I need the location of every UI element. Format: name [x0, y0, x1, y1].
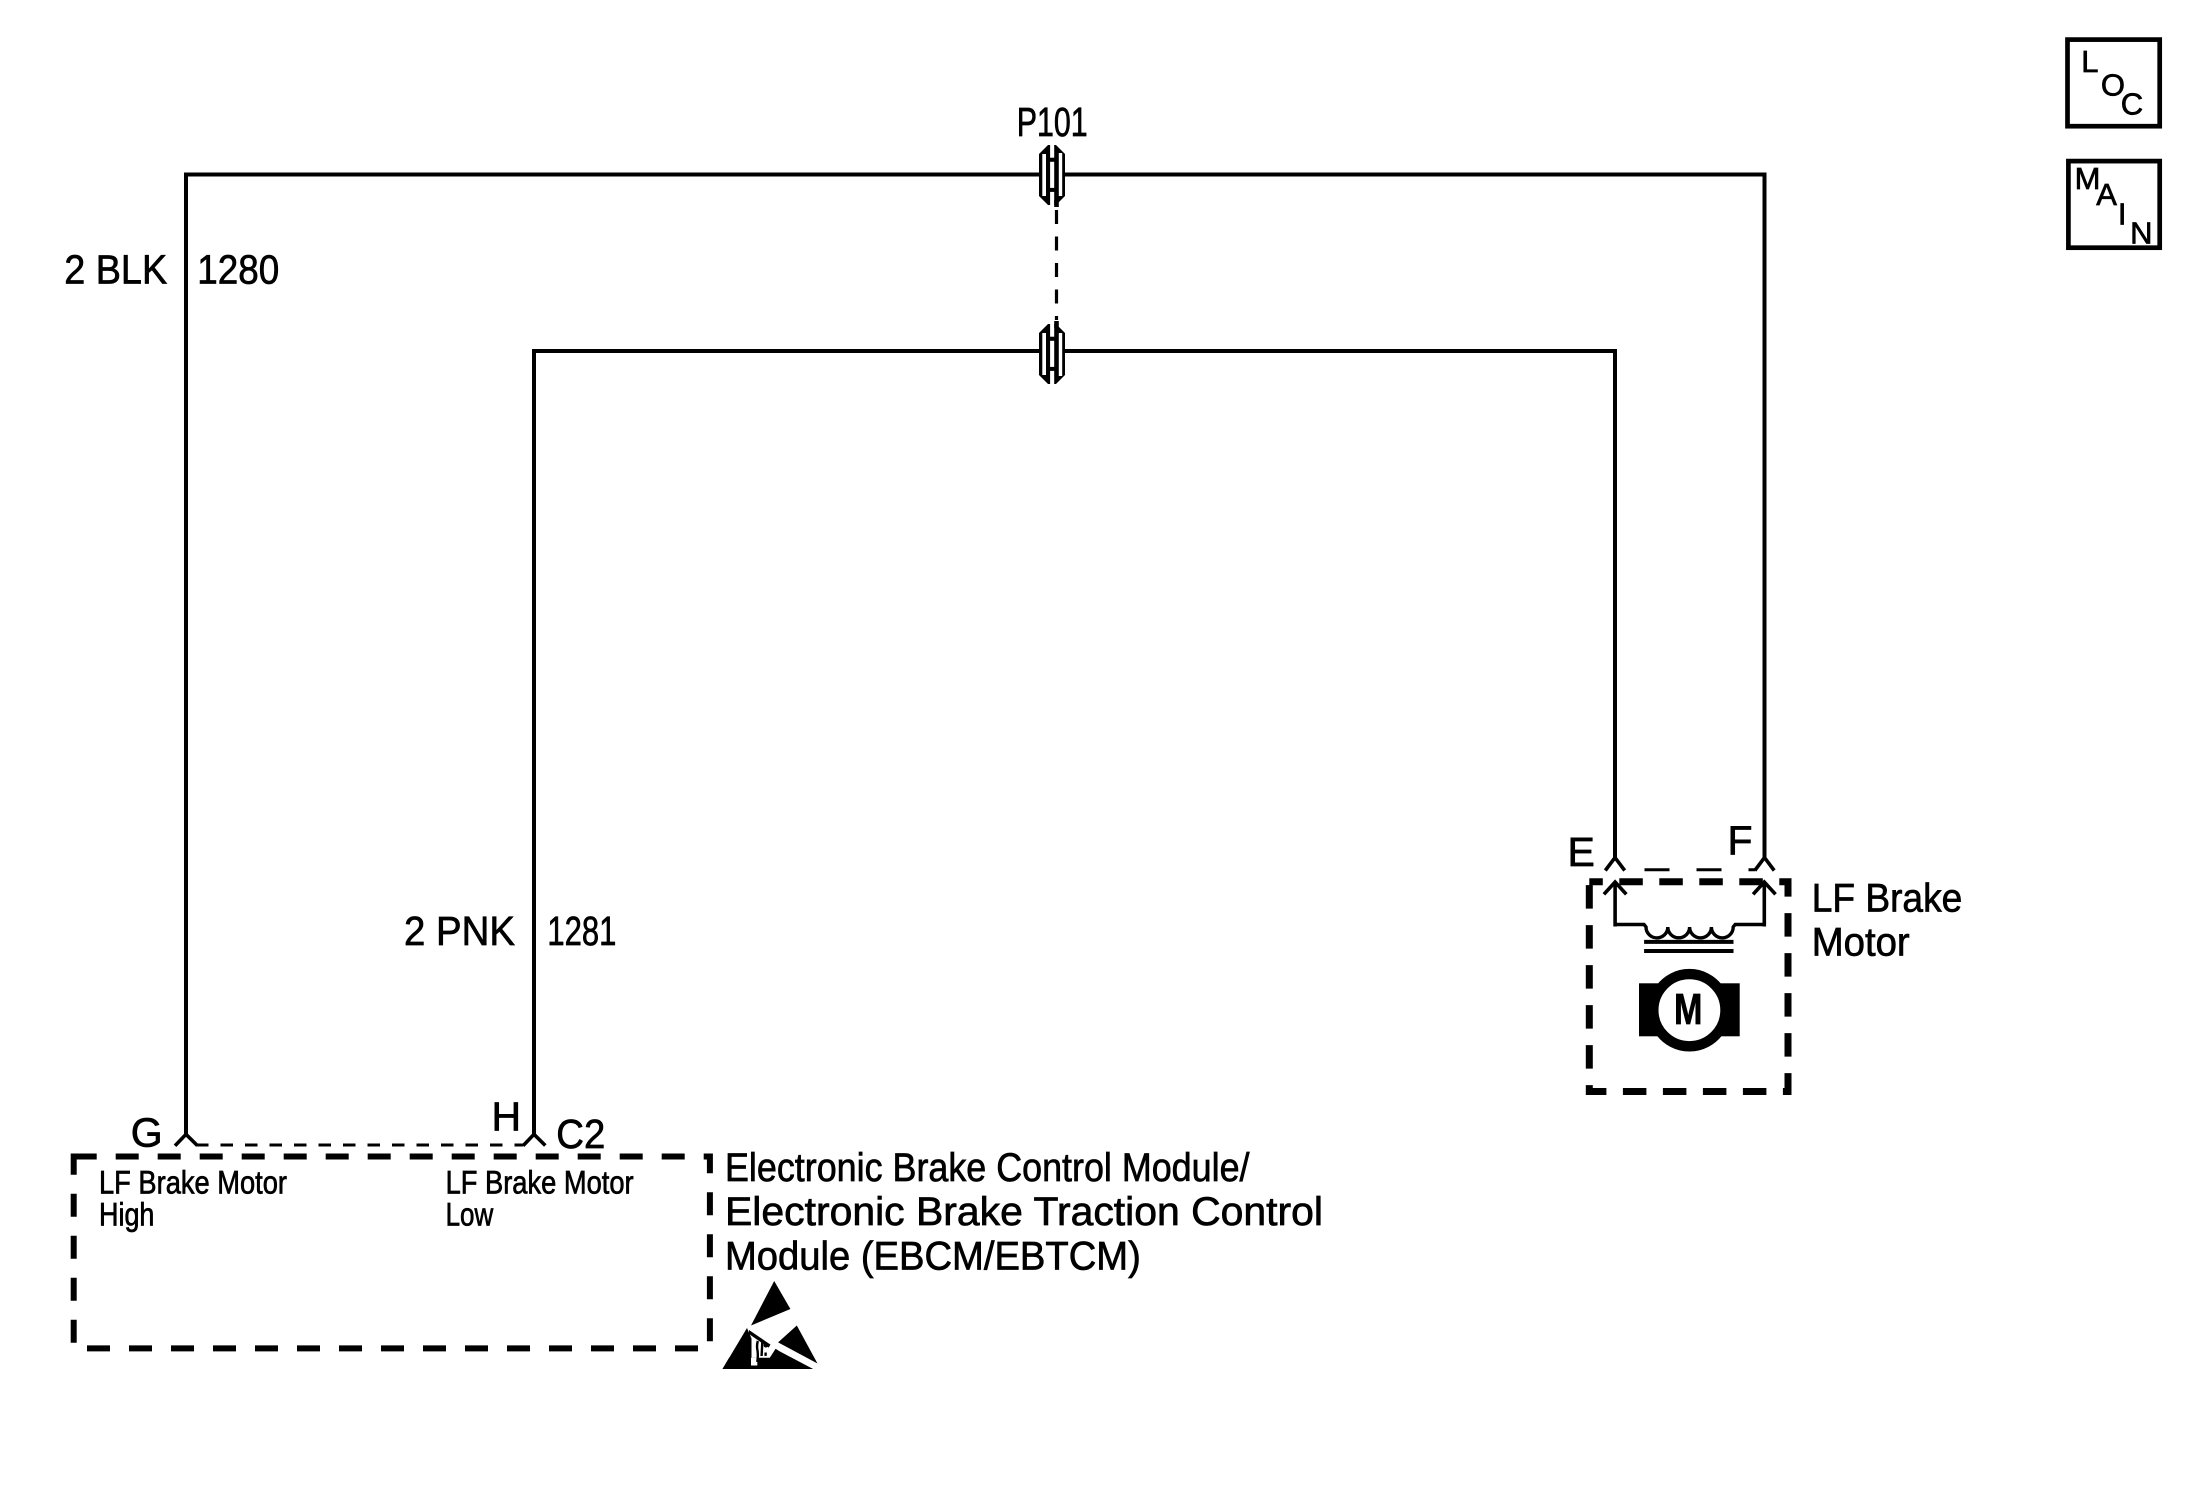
svg-text:F: F [1728, 817, 1753, 863]
connector P101 upper half symbol [1039, 145, 1065, 207]
svg-text:Electronic Brake Traction Cont: Electronic Brake Traction Control [725, 1190, 1323, 1234]
svg-text:C: C [2121, 87, 2143, 122]
svg-text:LF Brake Motor: LF Brake Motor [99, 1165, 287, 1201]
svg-text:Motor: Motor [1812, 920, 1910, 964]
MAIN reference box [2068, 161, 2159, 251]
motor core line 2 [1644, 949, 1733, 953]
svg-text:Low: Low [446, 1197, 494, 1233]
wire: left vertical to pin G [184, 173, 188, 1135]
svg-text:2 PNK: 2 PNK [404, 908, 515, 954]
svg-text:A: A [2096, 177, 2117, 212]
svg-text:LF Brake: LF Brake [1812, 877, 1963, 921]
wire: vertical to pin F [1763, 173, 1767, 858]
svg-text:1280: 1280 [197, 247, 279, 293]
pin F terminal fork [1755, 858, 1774, 871]
wire: second horizontal PNK circuit, left segment [532, 349, 1041, 353]
ESD sensitive device symbol [723, 1281, 818, 1369]
motor pin arrow F (up) [1753, 882, 1775, 927]
wire: second horizontal PNK circuit, right segment [1064, 349, 1618, 353]
svg-text:P101: P101 [1017, 99, 1088, 145]
svg-text:Electronic Brake Control Modul: Electronic Brake Control Module/ [725, 1146, 1250, 1190]
svg-text:I: I [2118, 197, 2127, 232]
svg-text:LF Brake Motor: LF Brake Motor [446, 1165, 634, 1201]
dashed mating line between connector halves [1055, 210, 1058, 320]
motor winding coil [1615, 925, 1764, 938]
pin E terminal fork [1605, 858, 1624, 871]
wire: middle vertical to pin H [532, 349, 536, 1134]
dashed terminal line E to F [1645, 868, 1756, 871]
svg-text:1281: 1281 [547, 908, 616, 954]
svg-text:2 BLK: 2 BLK [64, 246, 167, 292]
svg-text:Module (EBCM/EBTCM): Module (EBCM/EBTCM) [725, 1234, 1141, 1278]
pin G terminal fork [175, 1134, 197, 1146]
wire: top horizontal BLK circuit, left segment [186, 173, 1041, 177]
svg-text:H: H [492, 1094, 522, 1140]
wire: vertical to pin E [1613, 349, 1617, 858]
LOC reference box [2068, 40, 2160, 127]
dashed terminal line G to H [196, 1144, 523, 1147]
wire: top horizontal BLK circuit, right segment [1064, 173, 1767, 177]
motor core line 1 [1644, 940, 1733, 944]
svg-text:M: M [1674, 985, 1702, 1034]
motor M body [1639, 973, 1740, 1048]
svg-text:C2: C2 [556, 1111, 605, 1157]
LF Brake Motor dashed box [1589, 882, 1788, 1092]
svg-text:N: N [2130, 215, 2152, 250]
motor pin arrow E (up) [1604, 882, 1626, 927]
EBCM module dashed box [74, 1157, 710, 1349]
svg-text:E: E [1568, 829, 1595, 875]
svg-text:G: G [131, 1110, 163, 1156]
pin H terminal fork [523, 1134, 545, 1146]
svg-text:High: High [99, 1197, 154, 1233]
svg-text:L: L [2081, 44, 2098, 79]
connector P101 lower half symbol [1039, 321, 1065, 384]
